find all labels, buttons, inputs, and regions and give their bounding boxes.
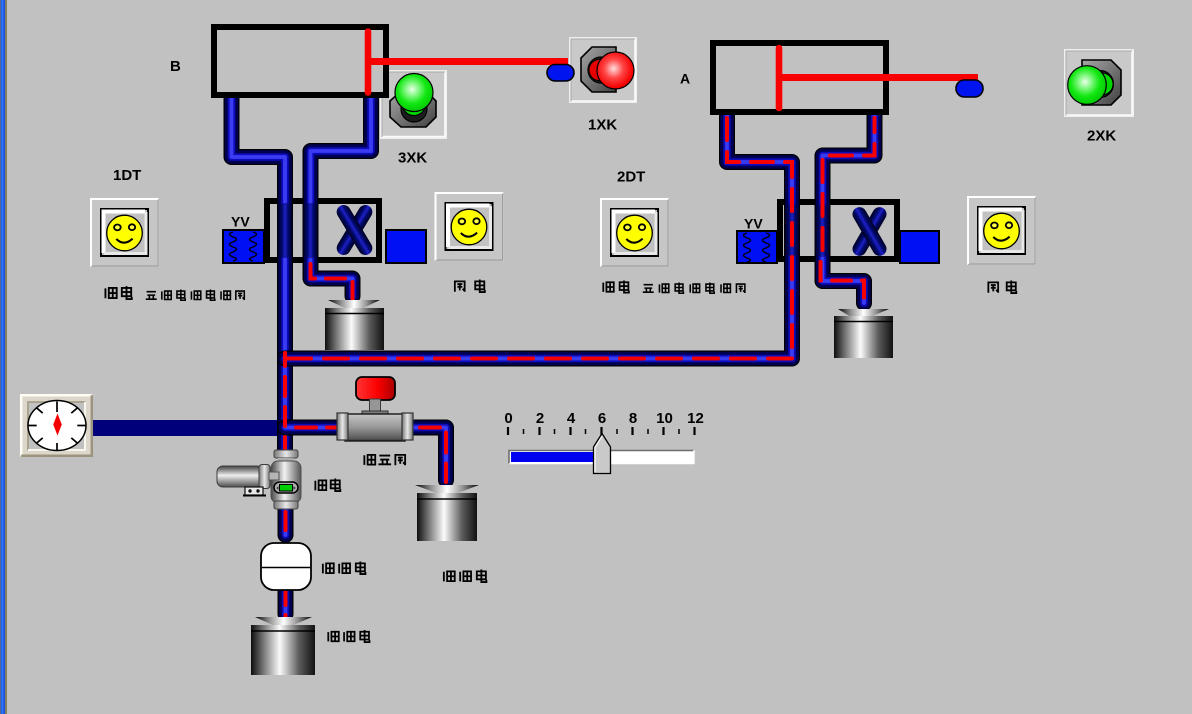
wire run: return line to valve U2 P-port and cylinder A left port xyxy=(285,114,792,359)
label 通电 left xyxy=(105,286,131,299)
svg-text:1XK: 1XK xyxy=(588,117,617,134)
wire run: pump suction pipe xyxy=(278,510,294,535)
wire run: cylinder A right port through valve U2 to tank T2 xyxy=(823,114,875,303)
label 油泵 xyxy=(315,479,340,492)
svg-text:8: 8 xyxy=(629,410,637,427)
lamp 3XK housing xyxy=(390,91,436,127)
indicator lamp 2XK panel xyxy=(1065,50,1133,116)
pump motor body xyxy=(217,466,263,487)
gauge ticks xyxy=(28,402,86,451)
flow dashes: cylinder A right line xyxy=(823,118,875,256)
svg-text:YV: YV xyxy=(231,214,250,230)
svg-text:YV: YV xyxy=(744,216,763,232)
overflow valve red knob xyxy=(356,377,395,400)
pump motor coupling ring xyxy=(259,465,270,489)
pump status display xyxy=(274,482,298,493)
wire: gauge connection line (flat navy) xyxy=(93,420,285,436)
overflow valve left flange xyxy=(337,413,348,440)
lamp 2XK green lens xyxy=(1068,66,1107,105)
overflow valve stem xyxy=(370,399,381,413)
button 1DT (通电 left) xyxy=(91,199,158,266)
svg-text:A: A xyxy=(680,71,690,87)
cylinder A piston rod xyxy=(780,74,978,81)
tank T1 funnel xyxy=(328,300,380,309)
svg-text:0: 0 xyxy=(504,410,512,427)
oil filter xyxy=(261,543,311,590)
label 断电 left xyxy=(455,280,485,293)
valve U1 straight-path symbol pipes xyxy=(278,203,293,258)
valve U2 straight-path symbol pipes xyxy=(785,204,800,257)
lamp 3XK green lens xyxy=(395,74,433,112)
valve U2 exhaust box xyxy=(900,231,939,263)
label 二位四通电磁阀 left xyxy=(146,289,244,300)
button 1XK housing xyxy=(581,47,616,92)
wire run: filter outlet pipe to tank T4 xyxy=(278,588,294,614)
svg-text:3XK: 3XK xyxy=(398,150,427,167)
valve U1 exhaust box xyxy=(386,230,426,263)
cylinder B piston rod xyxy=(369,58,568,65)
flow dashes: overflow branch xyxy=(296,428,446,483)
svg-text:2DT: 2DT xyxy=(617,169,645,186)
window left edge blue strip xyxy=(0,0,7,714)
flow dashes: valve U2 T-port to tank T2 xyxy=(821,262,865,306)
solenoid coil YV2 xyxy=(737,231,777,263)
flow dashes: cylinder A left line through valve U2 xyxy=(727,118,792,352)
svg-text:B: B xyxy=(170,58,181,75)
cylinder A piston xyxy=(776,48,783,108)
rod end stop B xyxy=(547,65,574,82)
pressure gauge dial xyxy=(28,401,86,451)
label 储油箱 middle xyxy=(444,570,487,583)
tank T2 funnel xyxy=(838,309,889,317)
svg-text:12: 12 xyxy=(687,410,704,427)
motor foot xyxy=(245,487,263,495)
pump motor shaft xyxy=(269,472,279,480)
flow dashes: pump suction xyxy=(284,512,288,540)
pressure gauge panel xyxy=(20,394,93,457)
label 溢流阀 xyxy=(364,455,405,465)
button 1XK red lens xyxy=(597,52,634,89)
gauge needle xyxy=(53,414,62,436)
slider thumb xyxy=(594,434,611,474)
valve U1 crossed-path symbol xyxy=(334,202,375,257)
wire run: overflow branch to tank T3 xyxy=(285,428,446,481)
valve U2 crossed-path symbol xyxy=(850,205,889,259)
tank T4 body xyxy=(251,625,315,675)
solenoid coil YV1 xyxy=(223,230,264,263)
overflow valve body xyxy=(345,414,405,441)
overflow valve right flange xyxy=(402,413,413,440)
oil pump top flange xyxy=(274,450,298,458)
indicator lamp 3XK panel xyxy=(381,71,446,138)
valve U2 body (二位四通电磁阀 right) xyxy=(780,202,897,259)
cylinder B body xyxy=(214,27,386,95)
label 断电 right xyxy=(988,281,1016,294)
tank T2 body xyxy=(834,316,893,358)
svg-text:4: 4 xyxy=(567,410,576,427)
tank T4 funnel xyxy=(255,617,312,626)
flow dashes: main riser to pump xyxy=(283,353,287,452)
label 储油箱 bottom xyxy=(328,630,369,642)
flow dashes: filter outlet xyxy=(284,589,288,618)
push button 1XK panel xyxy=(570,38,636,102)
label 二位四通电磁阀 right xyxy=(643,282,745,293)
lamp 2XK housing xyxy=(1082,60,1121,105)
wire run: cylinder B right port through valve U1 to tank T1 xyxy=(311,95,372,296)
valve U1 body (二位四通电磁阀 left) xyxy=(267,201,379,260)
button 断电 right xyxy=(968,197,1035,264)
oil pump bottom flange xyxy=(274,501,298,509)
flow dashes: valve U1 T-port to tank T1 xyxy=(311,264,353,299)
oil pump body xyxy=(271,461,301,503)
slider ticks xyxy=(508,427,695,435)
slider groove xyxy=(509,450,694,464)
label 滤油器 xyxy=(323,562,366,575)
slider scale numbers xyxy=(504,410,704,427)
svg-text:6: 6 xyxy=(598,410,606,427)
button 断电 left xyxy=(436,193,503,260)
tank T3 body xyxy=(417,493,477,541)
cylinder B piston xyxy=(365,32,372,93)
tank T1 body xyxy=(325,308,384,350)
svg-text:10: 10 xyxy=(656,410,673,427)
svg-text:2XK: 2XK xyxy=(1087,128,1116,145)
svg-text:2: 2 xyxy=(536,410,544,427)
label 通电 right xyxy=(603,281,629,293)
rod end stop A xyxy=(956,80,983,97)
button 2DT (通电 right) xyxy=(601,199,668,266)
tank T3 funnel xyxy=(415,485,479,494)
wire run: cylinder B left port to valve U1 P-port and down to return tee and pump xyxy=(232,95,286,455)
cylinder A body xyxy=(713,43,886,112)
svg-text:1DT: 1DT xyxy=(113,167,141,184)
flow dashes: long return line xyxy=(287,357,792,361)
